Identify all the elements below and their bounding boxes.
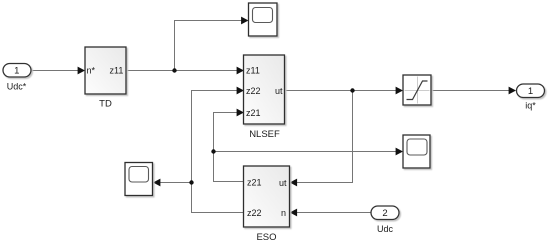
svg-text:z21: z21 xyxy=(246,108,261,118)
svg-text:n*: n* xyxy=(87,66,96,76)
svg-text:Udc*: Udc* xyxy=(7,82,27,92)
svg-text:1: 1 xyxy=(14,66,19,77)
svg-text:iq*: iq* xyxy=(525,101,536,111)
svg-text:ut: ut xyxy=(279,178,287,188)
svg-text:2: 2 xyxy=(382,208,387,219)
svg-text:n: n xyxy=(281,208,286,218)
svg-text:z11: z11 xyxy=(110,66,124,76)
svg-text:ESO: ESO xyxy=(256,232,276,243)
svg-text:z22: z22 xyxy=(247,208,262,218)
svg-text:z11: z11 xyxy=(246,66,260,76)
svg-text:1: 1 xyxy=(528,86,533,97)
svg-text:ut: ut xyxy=(275,86,283,96)
svg-text:Udc: Udc xyxy=(377,224,394,234)
svg-text:TD: TD xyxy=(99,99,112,110)
svg-text:z21: z21 xyxy=(247,178,262,188)
svg-text:z22: z22 xyxy=(246,86,261,96)
svg-text:NLSEF: NLSEF xyxy=(249,129,280,140)
